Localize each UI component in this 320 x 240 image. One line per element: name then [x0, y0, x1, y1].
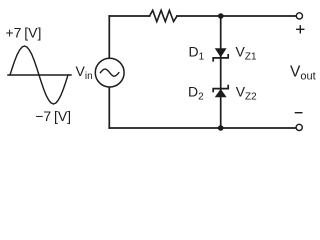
junction node top: [218, 13, 224, 19]
resistor R: [150, 10, 178, 21]
wire: top-left from source to top rail: [108, 16, 110, 58]
wire: zener branch vertical: [220, 16, 222, 128]
svg-text:D1: D1: [189, 43, 205, 62]
svg-text:−7 [V]: −7 [V]: [35, 108, 71, 124]
voltage source sine symbol: [100, 69, 118, 76]
wire: top rail right segment: [177, 15, 296, 17]
svg-text:Vout: Vout: [290, 64, 316, 83]
output terminal top: [296, 13, 302, 19]
wire: top rail left segment: [109, 15, 149, 17]
junction node bottom: [218, 125, 224, 131]
svg-text:VZ1: VZ1: [236, 43, 257, 62]
zener diode D1 triangle: [215, 48, 227, 57]
voltage source Vin circle: [95, 58, 124, 87]
input sine waveform: [10, 46, 68, 104]
plus sign at top output: [297, 26, 304, 33]
zener diode D2 cathode bar: [213, 86, 228, 92]
minus sign at bottom output: [295, 112, 301, 114]
wire: source to bottom rail: [108, 87, 110, 128]
svg-text:VZ2: VZ2: [236, 83, 257, 102]
output terminal bottom: [296, 124, 302, 130]
svg-text:Vin: Vin: [76, 63, 93, 82]
wire: bottom rail: [109, 127, 296, 129]
svg-text:+7 [V]: +7 [V]: [6, 24, 42, 40]
svg-text:D2: D2: [188, 83, 204, 102]
zener diode D1 cathode bar: [213, 55, 228, 61]
input waveform axis line: [8, 74, 71, 76]
zener diode D2 triangle: [215, 89, 227, 97]
